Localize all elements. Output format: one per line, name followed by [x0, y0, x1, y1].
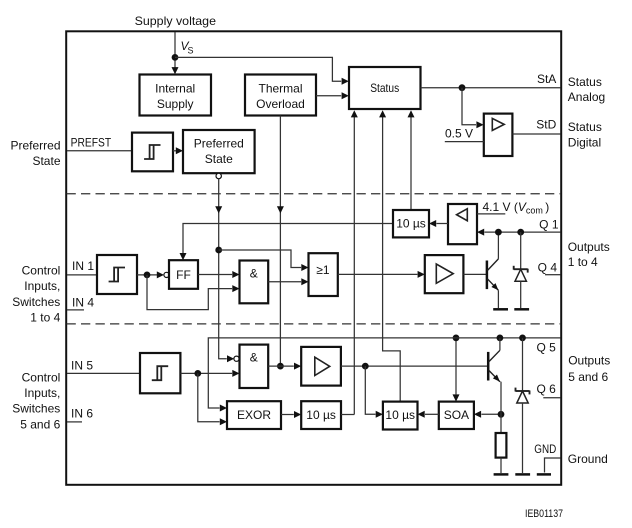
delay 10us-3 (EXOR filter)	[301, 401, 341, 429]
svg-text:Switches: Switches	[12, 402, 60, 416]
svg-text:State: State	[205, 152, 233, 166]
svg-text:Outputs: Outputs	[568, 354, 610, 368]
wire thermal overload vertical feed	[279, 116, 281, 367]
svg-text:IEB01137: IEB01137	[525, 508, 563, 520]
svg-text:Status: Status	[568, 75, 602, 89]
svg-text:FF: FF	[176, 268, 191, 282]
wire Thermal Overload to Status	[316, 95, 341, 97]
wire Q5 rail to SOA top	[455, 338, 457, 395]
outer border frame	[66, 31, 561, 485]
wire IN1	[67, 274, 97, 276]
svg-text:EXOR: EXOR	[237, 408, 271, 422]
svg-text:SOA: SOA	[444, 408, 469, 422]
svg-text:10 µs: 10 µs	[396, 217, 426, 231]
svg-text:1 to 4: 1 to 4	[30, 310, 60, 324]
wire SOA to 10us-2	[425, 413, 439, 415]
block Thermal Overload U-TO	[245, 75, 316, 116]
wire driver 5-6 output to base	[341, 365, 487, 367]
delay 10us-1	[393, 210, 429, 237]
driver amplifier 5-6	[301, 347, 341, 386]
svg-text:10 µs: 10 µs	[306, 408, 336, 422]
svg-text:IN 6: IN 6	[71, 407, 93, 421]
wire emitter sense to SOA	[481, 413, 501, 415]
schmitt trigger U-IN5	[140, 353, 180, 393]
svg-text:StD: StD	[536, 117, 556, 131]
wire preferred state branch to OR gate	[219, 250, 301, 268]
svg-text:Ground: Ground	[568, 452, 608, 466]
svg-text:≥1: ≥1	[316, 263, 330, 277]
wire GND pin	[545, 458, 561, 473]
svg-text:State: State	[32, 154, 60, 168]
svg-text:Control: Control	[22, 264, 61, 278]
svg-text:Q 4: Q 4	[538, 260, 558, 274]
node preferred-state inverted output bubble	[216, 173, 221, 178]
wire status feedback 3 (from 10us-1 top)	[410, 117, 412, 210]
wire Q1 rail	[484, 231, 560, 233]
delay 10us-2 (SOA filter)	[383, 402, 418, 430]
ground bar zener 1-4	[514, 308, 529, 311]
schmitt trigger U-IN1	[97, 255, 137, 294]
ground bar zener 5-6	[515, 473, 530, 476]
schmitt trigger U-PREFST	[132, 133, 173, 172]
wire AND to OR	[268, 281, 301, 283]
comparator U-VCOM	[448, 204, 477, 244]
OR gate GE1	[309, 253, 338, 296]
EXOR gate	[227, 401, 281, 429]
svg-text:0.5 V: 0.5 V	[445, 126, 473, 140]
block SOA	[439, 402, 474, 429]
zener diode D1-4	[520, 232, 522, 269]
svg-text:1 to 4: 1 to 4	[568, 255, 598, 269]
wire FF output	[198, 274, 232, 276]
wire StD line	[512, 133, 560, 135]
svg-text:&: &	[250, 351, 258, 365]
wire StA status analog line	[421, 87, 561, 89]
svg-text:IN 4: IN 4	[72, 295, 94, 309]
svg-text:Switches: Switches	[12, 295, 60, 309]
svg-text:Internal: Internal	[155, 82, 195, 96]
svg-text:5 and 6: 5 and 6	[20, 417, 60, 431]
svg-text:Preferred: Preferred	[10, 139, 60, 153]
wire preferred state vertical feed	[219, 179, 227, 359]
wire emitter to ground bar	[497, 290, 499, 308]
svg-text:S: S	[188, 46, 194, 56]
block Status	[349, 67, 421, 109]
ground bar resistor	[494, 473, 509, 476]
svg-text:Status: Status	[568, 120, 602, 134]
svg-text:PREFST: PREFST	[71, 136, 112, 150]
wire IN1 bypass to AND	[147, 275, 232, 310]
wire driver to transistor base	[463, 273, 486, 275]
wire status feedback 2 (from 10us-2 top)	[383, 117, 401, 402]
svg-text:Preferred: Preferred	[194, 137, 244, 151]
svg-text:10 µs: 10 µs	[385, 408, 415, 422]
svg-text:&: &	[250, 266, 258, 280]
ground bar GND	[537, 473, 551, 476]
svg-text:Outputs: Outputs	[568, 240, 610, 254]
ground bar emitter 1-4	[493, 308, 508, 311]
wire IN5 branch to EXOR	[198, 373, 220, 421]
wire schmitt IN1 output	[137, 274, 157, 276]
wire emitter down through SOA node to resistor	[500, 381, 502, 383]
wire Q5 output rail	[208, 338, 560, 408]
wire EXOR to 10us	[281, 414, 294, 416]
net VS supply wire	[174, 32, 176, 68]
svg-text:5 and 6: 5 and 6	[568, 370, 608, 384]
svg-text:Thermal: Thermal	[258, 82, 302, 96]
svg-text:Supply voltage: Supply voltage	[135, 14, 217, 28]
svg-text:Q 6: Q 6	[536, 382, 556, 396]
wire AND 5-6 output	[268, 365, 294, 367]
svg-text:Overload: Overload	[256, 97, 305, 111]
AND gate 5-6	[240, 345, 269, 388]
wire resistor to ground bar	[500, 458, 502, 473]
transistor Q1-4 output stage	[486, 261, 489, 290]
dashed separator 1	[67, 193, 562, 195]
svg-text:Q 1: Q 1	[539, 217, 559, 231]
transistor Q5-6 output stage	[487, 352, 490, 381]
AND gate 1-4	[240, 261, 269, 304]
svg-text:Supply: Supply	[157, 97, 194, 111]
svg-text:Inputs,: Inputs,	[24, 279, 60, 293]
wire branch to 10us-2	[365, 366, 375, 414]
wire 0.5V reference input	[445, 141, 484, 143]
svg-text:Digital: Digital	[568, 135, 601, 149]
svg-text:GND: GND	[534, 442, 556, 456]
wire status feedback 1 (from EXOR 10us)	[353, 117, 355, 415]
svg-text:Inputs,: Inputs,	[24, 386, 60, 400]
wire collector to Q1 rail	[497, 232, 499, 259]
svg-text:Status: Status	[370, 81, 399, 95]
wire schmitt IN5 output	[180, 372, 232, 374]
svg-text:IN 1: IN 1	[72, 259, 94, 273]
wire 10us to FF set input	[183, 224, 393, 254]
zener diode D5-6	[522, 338, 524, 391]
wire PREFST input	[67, 150, 132, 152]
dashed separator 2	[67, 323, 562, 325]
wire 10us-3 output up to status	[341, 414, 354, 416]
wire 4.1V reference	[477, 213, 505, 215]
resistor R-sense	[496, 433, 507, 458]
svg-text:IN 5: IN 5	[71, 359, 93, 373]
wire schmitt to Preferred State	[173, 150, 176, 152]
wire OR to driver	[338, 273, 418, 275]
svg-text:StA: StA	[537, 72, 556, 86]
block Preferred State	[183, 130, 255, 173]
driver amplifier 1-4	[425, 255, 464, 293]
block Internal Supply	[140, 75, 212, 116]
svg-text:Control: Control	[22, 371, 61, 385]
flip-flop FF	[169, 260, 198, 289]
wire comparator to 10us-1	[436, 223, 448, 225]
wire StA to digital comparator	[462, 88, 476, 125]
wire collector to Q5 rail	[499, 338, 501, 350]
comparator U-StD 0.5V	[484, 114, 513, 156]
svg-text:Q 5: Q 5	[536, 341, 556, 355]
svg-text:Analog: Analog	[568, 90, 605, 104]
